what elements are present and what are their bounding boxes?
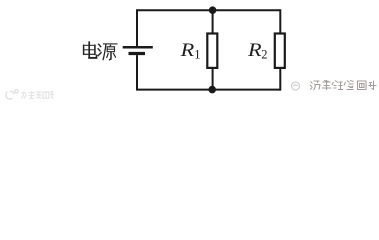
watermark bottom-left text [21,91,55,99]
battery B1 short plate (-) [129,52,146,55]
watermark bottom-right icon [292,82,300,90]
label 源 (power source text char 2) [98,44,117,60]
watermark bottom-left logo [6,90,18,99]
wire right branch lower [279,68,281,91]
wire middle branch lower [212,68,214,90]
wire middle branch upper [212,10,214,34]
wire top horizontal [137,9,280,11]
wire right branch upper [279,9,281,34]
svg-text:R: R [247,40,262,61]
resistor R2 body [275,34,285,68]
node junction dot bottom [208,86,216,94]
wire bottom horizontal [137,89,280,91]
svg-text:R: R [179,40,194,61]
svg-text:2: 2 [261,47,267,61]
node junction dot top [209,6,217,14]
label 电 (power source text char 1) [84,42,97,58]
svg-text:1: 1 [194,47,200,61]
battery B1 long plate (+) [123,46,153,49]
watermark bottom-right text 汽车维修图书 [310,80,377,90]
wire left branch lower (battery bottom lead) [136,55,138,91]
wire left branch upper (battery top lead) [136,9,138,46]
resistor R1 body [207,34,217,68]
